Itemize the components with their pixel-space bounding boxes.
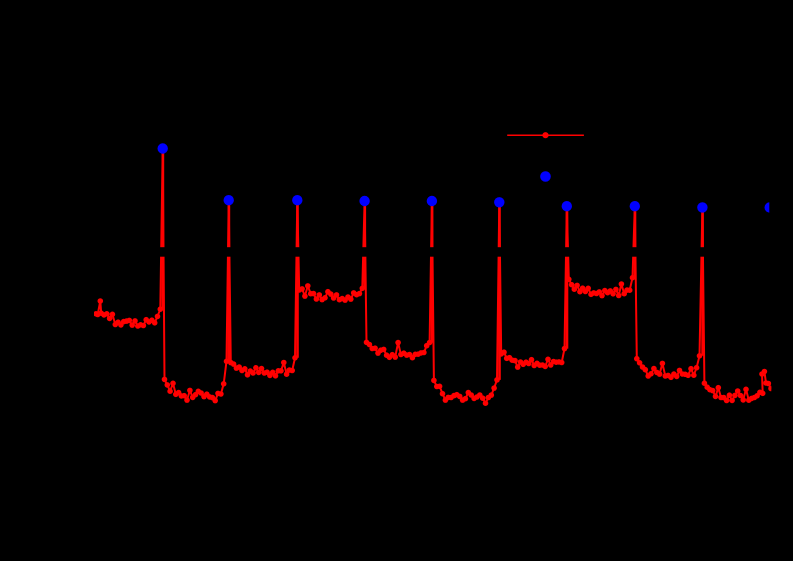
legend: red marker	[542, 132, 548, 138]
spike filler strokes	[162, 152, 165, 310]
legend: red line sample	[507, 134, 584, 136]
last detected peak (clipped blue half-dot)	[765, 202, 775, 212]
legend: blue marker	[540, 171, 551, 182]
detected peaks (blue dots)	[158, 143, 708, 212]
signal line (red)	[96, 149, 771, 404]
threshold overdraw band (black)	[94, 247, 772, 257]
signal sample markers (red dots)	[93, 146, 774, 406]
